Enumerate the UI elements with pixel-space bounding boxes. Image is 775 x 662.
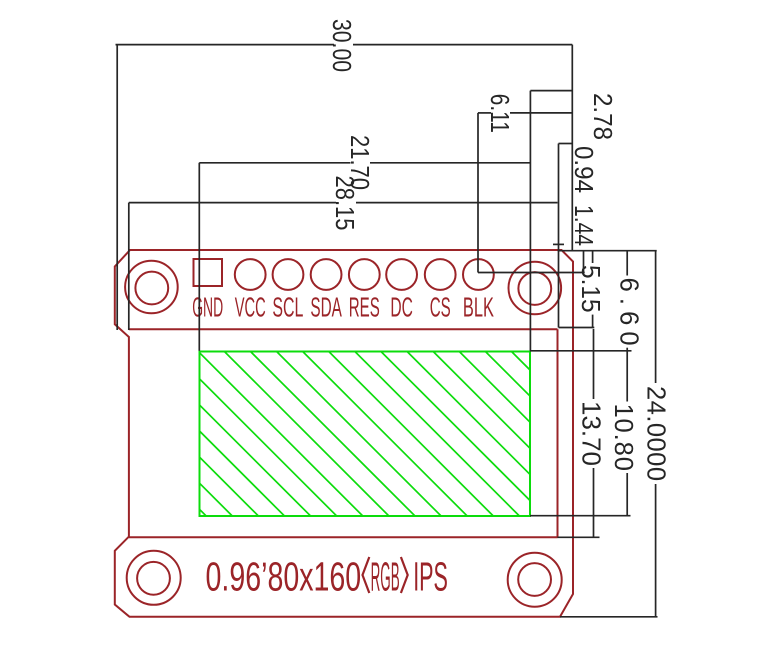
svg-text:28.15: 28.15: [330, 176, 358, 231]
hatch line: [42, 352, 207, 517]
mounting hole H2 outer: [509, 262, 562, 315]
extension line bottomstrip-top level: [558, 536, 600, 538]
pin BLK hole: [463, 259, 494, 290]
hatch line: [433, 352, 598, 517]
svg-text:10.80: 10.80: [609, 403, 637, 471]
extension line left 30.00: [116, 45, 118, 330]
extension line strip-bottom level: [559, 327, 595, 329]
title bracket left: [363, 557, 370, 593]
dim line 30.00: [116, 44, 335, 46]
svg-text:2.78: 2.78: [588, 93, 616, 140]
hatch line: [224, 352, 389, 517]
extension line display-bottom level: [530, 515, 631, 517]
dim line 0.94: [559, 143, 573, 145]
hatch line: [251, 352, 416, 517]
hatch line: [277, 352, 442, 517]
dim line 2.78: [530, 90, 572, 92]
extension line display-right: [529, 91, 531, 351]
dim line 24.0000: [655, 251, 657, 383]
hatch line: [16, 352, 181, 517]
board outline: [115, 250, 573, 617]
mounting hole H3 outer: [127, 551, 181, 605]
mounting hole H4 inner: [518, 563, 551, 596]
dim line 1.44: [583, 251, 585, 273]
title bracket right: [401, 557, 408, 593]
svg-text:RGB: RGB: [371, 554, 400, 600]
mounting hole H2 inner: [518, 272, 551, 305]
hatch line: [68, 352, 233, 517]
svg-text:SDA: SDA: [310, 291, 342, 322]
svg-text:VCC: VCC: [235, 291, 266, 322]
hatch line: [512, 352, 677, 517]
hatch line: [172, 352, 337, 517]
hatch line: [407, 352, 571, 517]
extension line pin-row level: [478, 272, 585, 274]
svg-text:IPS: IPS: [413, 554, 448, 600]
wire bottom-strip top edge: [129, 536, 558, 538]
dim line 21.70: [199, 162, 350, 164]
dim line 6.11: [478, 112, 491, 114]
svg-text:DC: DC: [390, 291, 413, 322]
svg-text:6.11: 6.11: [485, 94, 513, 133]
hatch line: [355, 352, 520, 517]
hatch line: [329, 352, 494, 517]
hatch line: [198, 352, 362, 517]
dim line 13.70: [593, 329, 595, 399]
extension line left 28.15: [128, 203, 130, 330]
svg-text:GND: GND: [192, 291, 223, 322]
dim line 5.15: [592, 251, 594, 263]
mounting hole H3 inner: [137, 562, 170, 595]
hatch line: [303, 352, 468, 517]
pin CS hole: [425, 259, 456, 290]
svg-text:0.96’80x160: 0.96’80x160: [206, 554, 362, 600]
extension line body-right: [558, 144, 560, 328]
display active area outline: [200, 352, 531, 517]
pin SDA hole: [311, 259, 342, 290]
hatch line: [146, 352, 311, 517]
wire pin-strip bottom edge: [129, 328, 558, 330]
wire inner right edge: [557, 329, 559, 537]
extension line display-left: [198, 163, 200, 351]
svg-text:BLK: BLK: [463, 291, 494, 322]
hatch line: [459, 352, 624, 517]
svg-text:30.00: 30.00: [327, 19, 355, 72]
hatch line: [381, 352, 546, 517]
hatch line: [538, 352, 703, 517]
svg-text:24.0000: 24.0000: [641, 386, 669, 481]
svg-text:RES: RES: [349, 291, 380, 322]
svg-text:13.70: 13.70: [576, 401, 604, 466]
extension line display-top level: [530, 350, 632, 352]
extension line right 30.00: [571, 45, 573, 251]
svg-text:5.15: 5.15: [576, 265, 604, 313]
svg-text:SCL: SCL: [272, 291, 303, 322]
dim line 6.60 10.80: [626, 251, 628, 276]
hatch line: [94, 352, 259, 517]
tick mark: [553, 243, 564, 245]
pin SCL hole: [273, 259, 304, 290]
pin RES hole: [349, 259, 380, 290]
mounting hole H1 outer: [125, 261, 178, 314]
mounting hole H1 inner: [135, 272, 168, 305]
extension line board-top level: [558, 250, 657, 252]
svg-text:6.60: 6.60: [615, 278, 643, 346]
hatch line: [120, 352, 285, 517]
pin VCC hole: [235, 259, 266, 290]
mounting hole H4 outer: [508, 553, 562, 607]
hatch line: [485, 352, 650, 517]
extension line board-bottom level: [560, 616, 658, 618]
svg-text:0.94: 0.94: [569, 146, 597, 193]
pad GND square: [194, 259, 223, 286]
pin DC hole: [386, 259, 417, 290]
extension line pin BLK: [477, 113, 479, 273]
svg-text:CS: CS: [430, 291, 451, 322]
dim line 28.15: [129, 202, 336, 204]
svg-text:1.44: 1.44: [569, 205, 597, 246]
